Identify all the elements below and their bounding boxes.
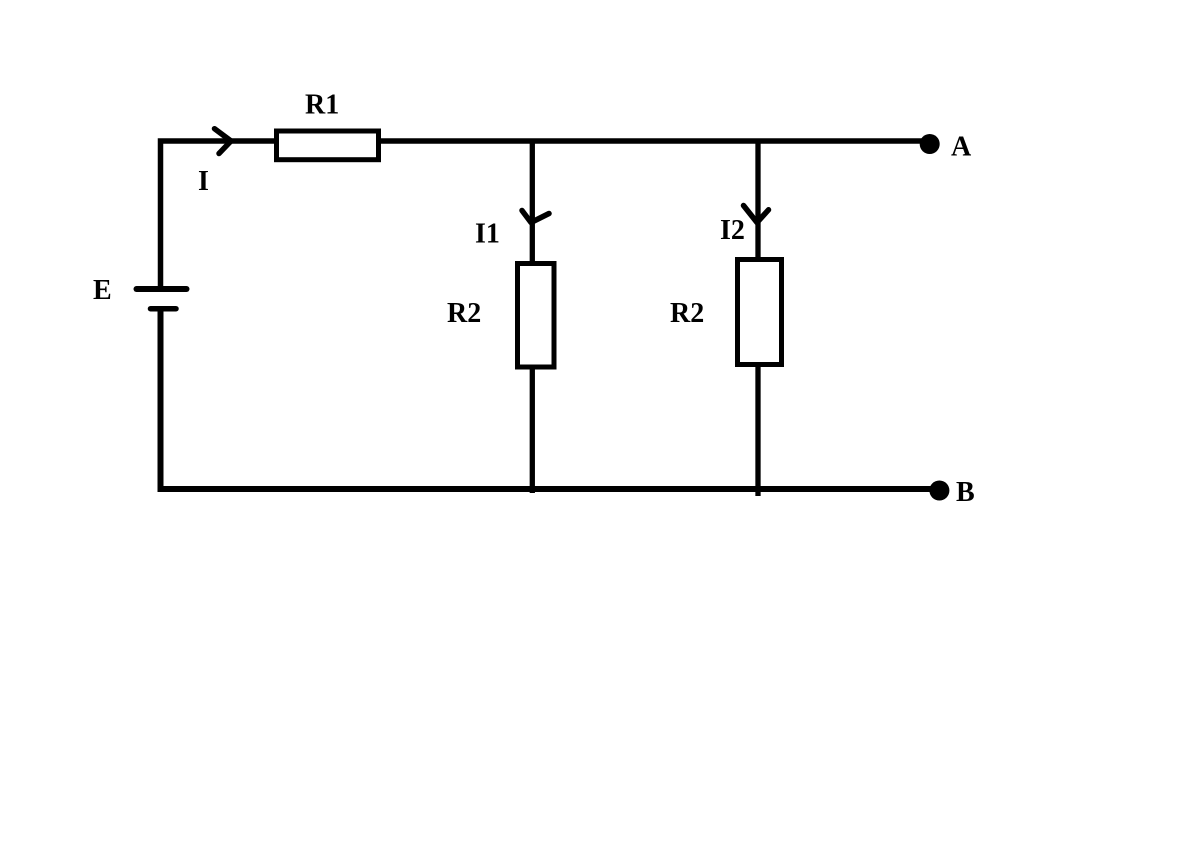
node B terminal dot (929, 481, 949, 501)
label I1 (475, 219, 500, 250)
svg-text:R2: R2 (447, 298, 481, 329)
label I (198, 166, 209, 197)
svg-text:A: A (951, 132, 972, 163)
arrow current I on top wire (215, 129, 232, 154)
label A (951, 132, 972, 163)
label E (93, 275, 112, 306)
label I2 (720, 215, 745, 246)
wire branch 2 vertical (755, 141, 760, 496)
svg-text:I: I (198, 166, 209, 197)
node A terminal dot (920, 134, 940, 154)
battery E symbol (137, 289, 187, 309)
label R2 (branch 2) (670, 298, 704, 329)
wire branch 1 vertical (530, 141, 535, 493)
resistor R1 (277, 131, 379, 160)
label R1 (305, 90, 339, 121)
resistor R2 (branch 1) (518, 264, 555, 368)
wire bottom rail from battery to node B (161, 309, 940, 489)
svg-text:I1: I1 (475, 219, 500, 250)
svg-text:I2: I2 (720, 215, 745, 246)
arrow current I2 on branch 2 (744, 206, 769, 223)
svg-text:R2: R2 (670, 298, 704, 329)
resistor R2 (branch 2) (738, 260, 782, 365)
svg-text:B: B (956, 477, 975, 508)
wire top rail from battery corner to node A (161, 141, 931, 288)
svg-text:R1: R1 (305, 90, 339, 121)
label R2 (branch 1) (447, 298, 481, 329)
label B (956, 477, 975, 508)
arrow current I1 on branch 1 (522, 211, 549, 223)
svg-text:E: E (93, 275, 112, 306)
